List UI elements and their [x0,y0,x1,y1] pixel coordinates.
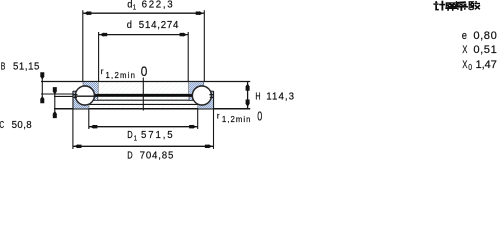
wire: interface line crossing left ball [76,95,96,97]
label: calculation factors header (CJK drawn as strokes) [433,1,480,11]
housing washer left inner lip [94,97,98,101]
dimension H: vertical line x=247.6 [247,82,249,109]
dimension D1: extension lines [88,109,90,129]
svg-text:r: r [217,110,220,120]
wire: right lip top edge [210,90,213,92]
housing washer left cross-section (blue, groove cut) [73,86,95,109]
housing washer right cross-section [192,86,214,109]
dimension d1: line y=13.2 [83,12,205,14]
wire: bearing right outer edge [213,91,215,109]
hatch zone lower (between washers, middle) [90,97,197,109]
svg-text:d: d [127,20,132,31]
svg-text:0: 0 [468,63,472,72]
shaft washer right cross-section [188,82,211,106]
svg-text:514,274: 514,274 [139,20,179,31]
hatch zone upper (bore see-through of shaft washer) [83,82,204,94]
svg-text:C: C [0,120,4,131]
svg-text:r: r [101,66,104,76]
svg-text:0,51: 0,51 [473,44,496,56]
dimension D1: line y=126.7 [89,126,198,128]
svg-text:D: D [127,150,132,161]
svg-text:114,3: 114,3 [266,92,294,103]
svg-text:571,5: 571,5 [141,130,173,141]
svg-text:1,47: 1,47 [476,59,497,71]
svg-text:50,8: 50,8 [12,120,32,131]
dimension d: line y=34.6 [99,34,189,36]
svg-text:D: D [127,130,132,141]
dimension D: line y=146.3 [73,145,214,147]
center axis line with 0 label [142,78,144,111]
svg-text:e: e [462,30,467,42]
shaft washer left cross-section (blue, groove cut) [75,82,98,106]
wire: band across left rim [73,94,77,96]
svg-text:1: 1 [133,4,136,11]
wire: bearing left outer edge [72,91,74,109]
wire: shaft washer top edge + B leader + H leader (y=81.5) [41,81,250,83]
svg-text:X: X [462,59,468,71]
wire: band across right rim [209,94,213,96]
svg-text:0,80: 0,80 [473,30,496,42]
dimension D: extension lines [72,109,74,149]
svg-text:X: X [462,44,468,56]
wire: B bottom leader (y=94.0) [41,93,77,95]
svg-text:0: 0 [257,109,262,123]
svg-text:B: B [1,61,6,72]
svg-text:704,85: 704,85 [140,150,174,161]
dimension d: extension lines [98,32,100,82]
char xi (series) [457,1,466,3]
svg-text:d: d [127,0,132,11]
char shu (factor) [469,1,475,8]
wire: housing top face line across left rim [73,96,77,98]
wire: washer interface thick band (y 93.9-96.8) [83,94,205,97]
svg-text:51,15: 51,15 [13,61,39,72]
svg-text:622,3: 622,3 [142,0,173,11]
svg-text:H: H [255,92,260,103]
wire: left lip top edge [73,90,76,92]
char suan (count) [446,2,457,8]
ball left [75,86,94,105]
svg-text:1: 1 [134,135,137,142]
wire: housing washer bottom edge + C leader + H leader (y=108.8) [54,108,250,110]
wire: housing top face line across right rim [210,96,214,98]
char ji (calculate) [435,1,437,3]
housing washer right inner lip [189,97,193,101]
wire: housing raceway edge line 1 (y=100.2) [89,99,198,101]
dimension d1: extension lines [82,10,84,81]
ball right [192,86,211,105]
svg-text:0: 0 [141,64,148,79]
wire: C top leader (y=96.4) [54,95,73,97]
dimension B: vertical line x=42.3 [41,76,43,102]
right cross-section (mirror) [188,82,214,109]
svg-text:1,2min: 1,2min [222,115,251,124]
dimension C: vertical line x=54.8 [54,91,56,118]
wire: housing raceway edge line 2 (y=104.4) [89,103,198,105]
